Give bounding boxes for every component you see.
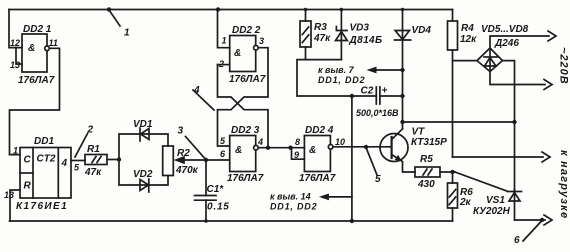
svg-text:47к: 47к (84, 167, 102, 178)
svg-text:C2: C2 (361, 86, 374, 97)
svg-text:470к: 470к (175, 165, 199, 176)
svg-text:+: + (382, 86, 388, 97)
resistor R6 (448, 170, 458, 221)
svg-text:DD2 3: DD2 3 (231, 125, 260, 136)
svg-text:к выв. 7: к выв. 7 (318, 65, 355, 75)
wire DD2.2 output to DD2.3 pin5 (X crossing) (218, 48, 269, 146)
svg-text:DD2 2: DD2 2 (232, 25, 261, 36)
svg-text:10: 10 (335, 137, 345, 147)
svg-text:К176ИЕ1: К176ИЕ1 (16, 201, 68, 212)
svg-text:R3: R3 (314, 22, 327, 33)
arrow к выв 7 (367, 67, 405, 99)
resistor R3 (300, 8, 311, 60)
wire bridge top to AC arrow 1 (490, 31, 556, 48)
wire DD2.2 pin1 from rail (218, 10, 230, 48)
svg-text:C1*: C1* (207, 184, 225, 195)
svg-text:к выв. 14: к выв. 14 (270, 192, 311, 202)
svg-text:1: 1 (222, 36, 227, 46)
svg-text:R2: R2 (177, 148, 190, 159)
op-amp U4 : gate DD2.4 (304, 136, 333, 172)
resistor R1 (85, 155, 107, 165)
wire VS1 cathode to load arrow 4 (515, 215, 553, 225)
transistor Q1 VT (380, 129, 415, 172)
wire DD2.4 output to VT base (333, 146, 392, 148)
diode VD2 (140, 179, 149, 192)
wire diode branch frame (119, 134, 168, 185)
arrow к выв 14 (319, 194, 352, 201)
wire R1 to diode branch (107, 159, 119, 161)
node 5 leader (364, 145, 368, 149)
svg-text:6: 6 (514, 235, 520, 246)
wire DD2.1 output to DD1 pin1 (10, 48, 60, 154)
op-amp U1 : gate DD2.1 (16, 34, 49, 72)
svg-text:&: & (28, 43, 35, 54)
svg-text:&: & (309, 145, 316, 156)
thyristor VS1 (508, 190, 522, 221)
diode bridge VD5-VD8 (477, 48, 502, 72)
wire DD2.3 output to DD2.4 inputs (258, 147, 304, 149)
wire R3/VD3 common to C2 left (297, 60, 376, 96)
resistor R4 (448, 10, 458, 158)
svg-text:VD1: VD1 (133, 119, 153, 130)
svg-text:176ЛА7: 176ЛА7 (299, 173, 336, 184)
svg-text:DD1, DD2: DD1, DD2 (318, 75, 365, 85)
svg-text:11: 11 (49, 38, 58, 48)
svg-text:~220В: ~220В (558, 47, 570, 85)
svg-text:2к: 2к (459, 197, 472, 208)
svg-text:VT: VT (412, 127, 426, 138)
svg-text:1: 1 (124, 28, 130, 39)
wire load arrow 3 (453, 152, 551, 162)
wire gate to VS1 (455, 172, 508, 191)
svg-text:DD2 1: DD2 1 (23, 24, 52, 35)
svg-text:КТ315Р: КТ315Р (411, 137, 447, 148)
node 1 leader (107, 7, 120, 26)
svg-text:к нагрузке: к нагрузке (558, 150, 570, 219)
svg-text:VD2: VD2 (133, 169, 153, 180)
svg-text:КУ202Н: КУ202Н (473, 206, 511, 217)
svg-text:&: & (235, 145, 242, 156)
svg-text:9: 9 (294, 150, 299, 160)
svg-text:4: 4 (257, 137, 263, 147)
wire DD1 pin4 output (71, 160, 85, 162)
diode VD4 (395, 8, 411, 129)
svg-text:R1: R1 (87, 144, 100, 155)
wire DD2.2 pin2 to DD2.3 output (X crossing) (218, 65, 269, 148)
node 6 leader (540, 218, 544, 222)
counter DD1 (20, 148, 71, 199)
svg-text:12к: 12к (460, 34, 477, 45)
svg-text:8: 8 (295, 137, 300, 147)
svg-text:DD1, DD2: DD1, DD2 (270, 202, 317, 212)
op-amp U2 : gate DD2.2 (218, 36, 259, 72)
svg-text:R5: R5 (420, 154, 433, 165)
svg-text:VD3: VD3 (350, 23, 370, 34)
svg-text:DD2 4: DD2 4 (305, 125, 334, 136)
svg-text:176ЛА7: 176ЛА7 (229, 74, 266, 85)
svg-text:Д246: Д246 (494, 38, 519, 49)
resistor R5 (415, 167, 455, 177)
svg-text:5: 5 (375, 174, 381, 185)
svg-text:4: 4 (193, 85, 200, 96)
svg-text:176ЛА7: 176ЛА7 (227, 173, 264, 184)
wire common down to bottom rail (351, 96, 353, 221)
svg-text:C: C (24, 155, 32, 166)
wire bridge right to VS1 anode (502, 61, 514, 190)
svg-text:VD4: VD4 (412, 25, 432, 36)
svg-text:2: 2 (218, 59, 224, 69)
svg-text:1: 1 (13, 146, 18, 156)
svg-text:176ЛА7: 176ЛА7 (18, 75, 55, 86)
wire left rail to DD2.1 inputs (9, 10, 22, 48)
svg-text:13: 13 (4, 190, 14, 200)
svg-text:&: & (234, 48, 241, 59)
zener diode VD3 (336, 8, 348, 60)
capacitor C1 (195, 160, 217, 223)
svg-text:4: 4 (61, 158, 68, 169)
op-amp U3 : gate DD2.3 (230, 136, 258, 172)
node 4 leader (193, 90, 214, 110)
svg-text:3: 3 (259, 36, 264, 46)
svg-text:500,0*16В: 500,0*16В (356, 108, 399, 118)
node dot DD2.2 pin1 on rail (216, 7, 220, 11)
svg-text:0.15: 0.15 (207, 202, 230, 213)
svg-text:12: 12 (10, 38, 20, 48)
svg-text:R4: R4 (461, 23, 474, 34)
svg-text:2: 2 (87, 125, 94, 136)
svg-text:Д814Б: Д814Б (349, 35, 383, 46)
diode VD1 (140, 128, 149, 141)
wire top supply rail (9, 9, 453, 11)
svg-text:47к: 47к (313, 33, 331, 44)
capacitor C2 polarized (376, 87, 402, 104)
wire DD1 pin13 to bottom rail (10, 190, 20, 221)
svg-text:3: 3 (178, 126, 184, 137)
wire bridge bottom to AC arrow 2 (490, 72, 552, 90)
svg-text:DD1: DD1 (34, 136, 54, 147)
node 2 leader (75, 134, 88, 158)
resistor R2 variable (163, 146, 230, 176)
wire VT collector to VS1 line (403, 121, 515, 123)
svg-text:430: 430 (417, 179, 435, 190)
node 3 leader (186, 137, 206, 160)
wire bottom common rail (10, 220, 453, 222)
svg-text:13: 13 (10, 60, 20, 70)
svg-text:VD5...VD8: VD5...VD8 (481, 24, 529, 35)
svg-text:VS1: VS1 (486, 195, 505, 206)
wire R4 to bridge left vertex (453, 60, 478, 62)
svg-text:R: R (24, 181, 32, 192)
svg-text:CT2: CT2 (37, 154, 56, 165)
